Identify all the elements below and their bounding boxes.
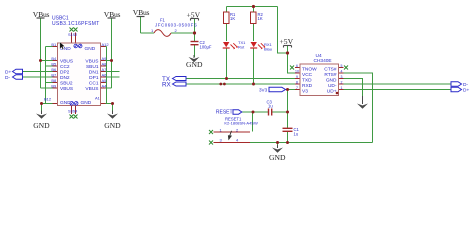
svg-text:A9: A9 <box>102 56 108 61</box>
svg-text:9: 9 <box>296 75 298 79</box>
svg-text:RXD: RXD <box>302 83 313 89</box>
svg-text:1K: 1K <box>230 16 235 21</box>
svg-text:D-: D- <box>463 82 468 88</box>
svg-text:VBus: VBus <box>133 8 150 17</box>
svg-text:GND: GND <box>33 121 50 130</box>
svg-text:RESET: RESET <box>216 110 233 116</box>
svg-text:VBUS: VBUS <box>85 59 98 65</box>
svg-text:UD+: UD+ <box>327 88 337 94</box>
svg-text:3: 3 <box>341 75 343 79</box>
svg-text:A1: A1 <box>95 95 101 100</box>
svg-text:VBus: VBus <box>33 10 50 19</box>
svg-text:A4: A4 <box>102 83 108 88</box>
svg-text:6: 6 <box>296 64 298 68</box>
svg-text:A8: A8 <box>102 61 108 66</box>
svg-text:100µF: 100µF <box>200 44 212 49</box>
svg-text:B12: B12 <box>44 97 52 102</box>
svg-text:CC2: CC2 <box>60 64 70 70</box>
svg-text:A6: A6 <box>102 72 108 77</box>
svg-text:8: 8 <box>296 80 298 84</box>
svg-text:GND: GND <box>186 60 203 69</box>
svg-text:D+: D+ <box>5 70 11 76</box>
svg-text:+5V: +5V <box>187 10 201 19</box>
svg-text:7: 7 <box>296 86 298 90</box>
svg-text:Blau: Blau <box>264 46 272 51</box>
svg-text:GND: GND <box>81 100 92 106</box>
svg-text:K2-1808SN-A4SW: K2-1808SN-A4SW <box>224 121 258 126</box>
svg-text:+5V: +5V <box>280 37 294 46</box>
svg-text:GND: GND <box>60 100 71 106</box>
svg-text:4: 4 <box>341 69 343 73</box>
svg-text:VCC: VCC <box>302 72 313 78</box>
svg-text:SBU1: SBU1 <box>86 64 99 70</box>
svg-text:RX: RX <box>162 82 172 89</box>
svg-text:B1: B1 <box>51 42 57 47</box>
svg-text:GND: GND <box>85 46 96 52</box>
svg-text:VBUS: VBUS <box>60 59 73 65</box>
svg-text:DP2: DP2 <box>60 70 70 76</box>
svg-text:VBUS: VBUS <box>60 86 73 92</box>
svg-text:DN1: DN1 <box>89 70 99 76</box>
svg-text:DP1: DP1 <box>89 75 99 81</box>
svg-text:10: 10 <box>295 69 299 73</box>
svg-text:S3S4: S3S4 <box>68 110 77 114</box>
svg-text:S1S2: S1S2 <box>68 33 77 37</box>
svg-text:GND: GND <box>104 121 121 130</box>
svg-text:B4: B4 <box>51 56 57 61</box>
svg-text:SBU2: SBU2 <box>60 81 73 87</box>
svg-text:USB3.1C16PFSMT: USB3.1C16PFSMT <box>52 21 100 27</box>
svg-text:Rot: Rot <box>238 44 245 49</box>
svg-text:VBUS: VBUS <box>85 86 98 92</box>
svg-text:1u: 1u <box>268 103 273 108</box>
svg-text:A7: A7 <box>102 67 108 72</box>
svg-text:CH340E: CH340E <box>314 58 332 64</box>
svg-text:B6: B6 <box>51 67 57 72</box>
svg-text:1u: 1u <box>294 131 299 136</box>
svg-text:CTS#: CTS# <box>324 66 337 72</box>
svg-text:D-: D- <box>5 75 10 81</box>
svg-text:TXD: TXD <box>302 77 312 83</box>
svg-text:VBus: VBus <box>104 10 121 19</box>
svg-text:TNOW: TNOW <box>302 66 317 72</box>
svg-text:B8: B8 <box>51 78 57 83</box>
svg-text:JFC0603-0500FS: JFC0603-0500FS <box>155 22 197 27</box>
svg-text:B7: B7 <box>51 72 57 77</box>
svg-text:GND: GND <box>269 153 286 162</box>
svg-text:UD-: UD- <box>328 83 337 89</box>
svg-text:1K: 1K <box>258 16 263 21</box>
svg-text:V3: V3 <box>302 88 308 94</box>
svg-text:3V3: 3V3 <box>259 87 268 92</box>
svg-text:GND: GND <box>326 77 337 83</box>
svg-text:1: 1 <box>341 86 343 90</box>
svg-text:B9: B9 <box>51 83 57 88</box>
svg-text:5: 5 <box>341 64 343 68</box>
svg-text:DN2: DN2 <box>60 75 70 81</box>
svg-text:RTS#: RTS# <box>324 72 337 78</box>
svg-text:D+: D+ <box>463 88 469 94</box>
svg-text:A5: A5 <box>102 78 108 83</box>
svg-text:B5: B5 <box>51 61 57 66</box>
svg-text:2: 2 <box>341 80 343 84</box>
svg-text:CC1: CC1 <box>89 81 99 87</box>
svg-text:A12: A12 <box>102 42 110 47</box>
